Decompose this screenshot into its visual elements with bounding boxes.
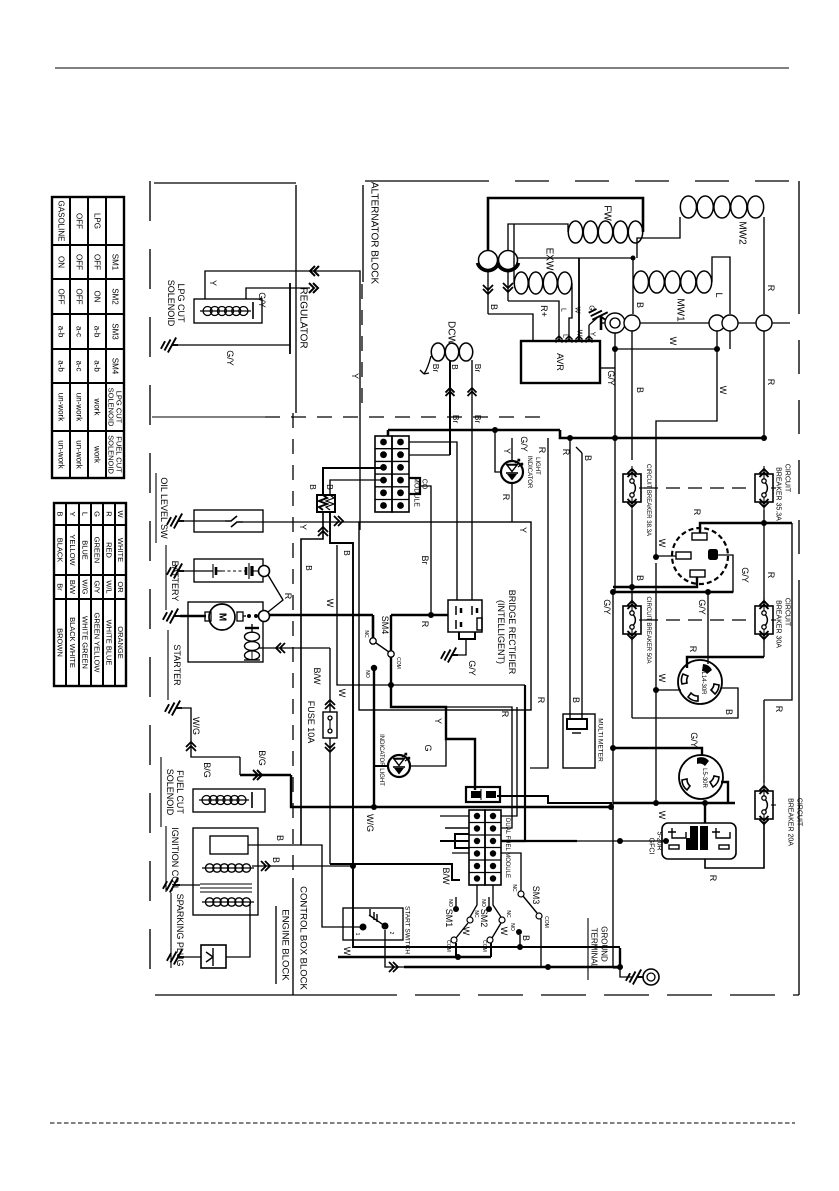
wire B to L14-30R: [632, 688, 738, 718]
diagram outer border left edge: [149, 181, 151, 995]
svg-text:un-work: un-work: [57, 440, 66, 469]
receptacle L14-30R outline: [678, 660, 722, 704]
wire right R vertical: [764, 523, 792, 700]
dual fuel module 2pin connector: [466, 787, 500, 802]
svg-text:B: B: [56, 511, 65, 516]
svg-text:NO: NO: [447, 899, 453, 907]
wire Y oil switch junction: [445, 827, 469, 829]
svg-text:W: W: [657, 811, 667, 820]
starter solenoid coil: [245, 632, 260, 641]
wire FW right end to brush 1 (thick top wire): [488, 198, 643, 250]
circuit breaker 38.3A: [623, 474, 641, 502]
thick W bus starter to SM4 NC: [269, 614, 373, 617]
svg-text:B: B: [271, 857, 281, 863]
svg-text:NO: NO: [509, 923, 515, 931]
B wire DCW to module pin2: [449, 430, 451, 455]
svg-text:BRIDGE RECTIFIER: BRIDGE RECTIFIER: [507, 590, 517, 675]
indicator light 1: [501, 461, 523, 483]
GFCI reset buttons: [690, 826, 698, 850]
ground terminal underline: [587, 918, 589, 980]
dual fuel module right wires: [501, 707, 517, 816]
dual fuel module pin3 thick wire to GFCI: [501, 840, 577, 842]
svg-text:un-work: un-work: [75, 393, 84, 422]
DCW winding coil: [431, 343, 444, 361]
wire breaker 20A to R net: [763, 700, 765, 783]
svg-text:M: M: [217, 613, 228, 621]
ignition coil core: [200, 883, 252, 885]
svg-text:W: W: [342, 947, 352, 956]
svg-text:R: R: [688, 646, 698, 653]
14-50R ground pin: [708, 549, 718, 560]
svg-text:LPG: LPG: [93, 213, 102, 229]
svg-text:CIRCUIT: CIRCUIT: [784, 598, 791, 627]
wire G/Y to light1: [495, 430, 501, 472]
starter box: [188, 602, 263, 662]
svg-text:B: B: [521, 935, 531, 941]
DCW lead B center thick: [449, 360, 451, 430]
wire L5-30R down to GFCI: [704, 803, 706, 823]
svg-text:SM3: SM3: [531, 886, 541, 905]
svg-text:WHITE GREEN: WHITE GREEN: [81, 616, 90, 669]
starter ground: [163, 609, 180, 624]
svg-text:SM3: SM3: [111, 323, 120, 340]
svg-text:W/G: W/G: [81, 580, 90, 595]
FW field winding coil: [568, 221, 582, 243]
battery label underline: [165, 545, 167, 610]
fuel cut solenoid coil: [199, 799, 249, 801]
svg-text:a-c: a-c: [75, 326, 84, 337]
svg-text:un-work: un-work: [57, 393, 66, 422]
wire B thin below suppressor to B bus: [330, 512, 353, 866]
wire B to 14-50R: [613, 577, 697, 587]
DCW lead Br right: [468, 388, 477, 396]
CO module pins: [380, 439, 387, 446]
B/W wire with chevron: [263, 647, 330, 649]
lpg cut solenoid box: [194, 299, 262, 323]
thick bus R G/Y horizontal: [388, 429, 560, 432]
svg-text:Y: Y: [518, 527, 528, 533]
svg-text:R: R: [283, 593, 293, 600]
starter terminal circle: [259, 611, 270, 622]
sparking plug ground: [167, 950, 184, 965]
L5-30R slot 1: [682, 779, 690, 790]
wire breaker 38.3A down to B junction: [631, 510, 633, 587]
svg-text:Br: Br: [431, 364, 441, 373]
svg-text:MW2: MW2: [737, 221, 748, 245]
wire R to 14-50R: [700, 523, 792, 533]
svg-text:B: B: [635, 575, 645, 581]
receptacle 14-50R outline: [672, 528, 728, 584]
breaker tie dashed 50-30: [644, 619, 752, 621]
battery ground: [167, 564, 184, 579]
svg-text:W: W: [337, 689, 347, 698]
svg-text:START SWITCH: START SWITCH: [404, 906, 411, 954]
fuse box: [323, 712, 337, 738]
svg-text:OFF: OFF: [57, 289, 66, 305]
SM4 COM down wire: [390, 657, 392, 685]
svg-text:W: W: [116, 510, 125, 518]
wire Y light1 top: [511, 438, 513, 461]
svg-text:STARTER: STARTER: [172, 644, 182, 686]
svg-text:Br: Br: [451, 415, 461, 424]
battery wire left: [184, 570, 213, 572]
dual fuel module pins: [474, 813, 480, 819]
svg-text:G/Y: G/Y: [225, 350, 235, 366]
wire B thin from CO module pin4: [330, 480, 382, 495]
starter coil wire to B/W: [251, 650, 253, 660]
svg-text:GASOLINE: GASOLINE: [57, 201, 66, 242]
svg-text:MODULE: MODULE: [413, 477, 420, 507]
svg-text:BLACK WHITE: BLACK WHITE: [68, 617, 77, 668]
regulator block top border: [295, 185, 297, 413]
circuit breaker 20A: [755, 791, 773, 819]
Y long wire from regulator: [296, 271, 360, 530]
fuel cut solenoid underline: [160, 757, 162, 827]
svg-text:W/G: W/G: [191, 717, 201, 735]
svg-text:1: 1: [354, 933, 360, 936]
wire G/Y to L14-30R ground: [707, 592, 709, 664]
colour legend table grid: [54, 503, 126, 686]
wire EXW right end to AVR L pin: [569, 283, 572, 341]
svg-text:Y: Y: [502, 448, 512, 454]
GFCI 5-20R outline: [662, 823, 736, 859]
GFCI outlet right: [712, 828, 730, 849]
noise suppressor box: [317, 495, 335, 512]
wire B terminal down to breaker 38.3A: [631, 331, 633, 460]
svg-text:B: B: [342, 550, 352, 556]
svg-text:R+: R+: [539, 305, 549, 317]
wire W bus 14-50R to L14-30R: [655, 563, 657, 803]
svg-text:SM1: SM1: [444, 909, 454, 928]
svg-text:NC: NC: [511, 884, 517, 892]
dual fuel module pin2 wire: [497, 796, 611, 807]
wire MW2 left end to MW1 left: [637, 217, 680, 258]
svg-text:L5-30R: L5-30R: [701, 768, 707, 788]
svg-text:Y: Y: [298, 524, 308, 530]
multimeter box: [563, 714, 595, 768]
svg-text:SM2: SM2: [111, 288, 120, 305]
svg-text:ON: ON: [93, 291, 102, 303]
L14-30R slot 1: [681, 674, 688, 684]
fuel cut solenoid box: [193, 789, 265, 812]
wire EXW left end up to FW line: [513, 224, 515, 283]
svg-text:B: B: [450, 364, 460, 370]
wire W to 14-50R: [656, 555, 676, 557]
Br wire to bridge: [420, 486, 431, 615]
svg-text:L: L: [560, 308, 567, 312]
svg-text:W: W: [325, 599, 335, 608]
svg-text:BREAKER 30A: BREAKER 30A: [775, 600, 782, 648]
circuit breaker 30A: [755, 606, 773, 634]
MW1 main winding coil: [633, 271, 648, 293]
svg-text:SPARKING PLUG: SPARKING PLUG: [175, 894, 185, 967]
diagram outer border top edge: [154, 182, 296, 184]
svg-text:W/G: W/G: [365, 814, 375, 832]
14-50R slot W: [676, 552, 691, 559]
AVR box: [521, 341, 600, 383]
svg-text:REGULATOR: REGULATOR: [298, 287, 309, 348]
wire G/Y down to ground terminal: [612, 592, 614, 968]
B wire to multimeter: [581, 453, 583, 719]
svg-text:W: W: [461, 927, 471, 936]
B/G chevron wire thick: [240, 774, 291, 776]
lpg ground wire G/Y to regulator: [178, 344, 290, 346]
svg-text:MW1: MW1: [675, 298, 686, 322]
svg-text:BREAKER 20A: BREAKER 20A: [787, 798, 794, 846]
oil level switch box: [194, 510, 263, 532]
B/W wire to dual fuel module: [330, 864, 460, 880]
condenser: [605, 313, 625, 333]
svg-text:FUSE 10A: FUSE 10A: [306, 701, 316, 744]
svg-text:CIRCUIT: CIRCUIT: [796, 798, 803, 827]
brush 1: [479, 251, 498, 270]
SM3 NO wire to B: [519, 935, 521, 947]
alternator output terminal line: [624, 322, 790, 324]
thick G/Y bus horizontal: [613, 591, 733, 593]
svg-text:R: R: [766, 379, 776, 386]
dual fuel module bottom wires to SM: [470, 885, 477, 917]
svg-text:BLUE: BLUE: [81, 540, 90, 560]
oil level switch contact: [225, 516, 243, 527]
alternator block divider: [361, 284, 363, 413]
wire breaker 35.3A to R node 14-50R: [763, 510, 765, 523]
svg-text:Y: Y: [589, 332, 596, 337]
starter label underline: [167, 630, 169, 700]
terminal circle L: [722, 315, 738, 331]
svg-text:Y: Y: [350, 373, 360, 379]
diagram outer border right edge: [798, 181, 800, 280]
svg-text:R: R: [774, 706, 784, 713]
terminal circle B: [624, 315, 640, 331]
CO module right pin1 wire: [409, 442, 457, 600]
W bus bottom: [404, 966, 620, 968]
Y arrow into control box: [334, 516, 343, 526]
svg-text:NC: NC: [505, 910, 511, 918]
L5-30R ground slot: [697, 757, 709, 766]
wire brush2 to AVR R+ pin: [508, 301, 559, 341]
sparking plug electrode: [206, 948, 213, 966]
wire brush1 B to AVR: [488, 314, 533, 341]
svg-text:Br: Br: [56, 583, 65, 591]
svg-text:G/Y: G/Y: [602, 599, 612, 615]
wire G/Y to GFCI junction: [663, 838, 669, 844]
svg-text:R: R: [766, 285, 776, 292]
wire brush2 node to MW1 left: [518, 257, 633, 259]
svg-text:SOLENOID: SOLENOID: [166, 280, 176, 327]
wire MW1 right end L to terminal: [712, 257, 730, 314]
page header rule: [55, 67, 789, 69]
noise suppressor zigzag left: [319, 495, 327, 510]
svg-text:L: L: [81, 512, 90, 516]
control box / engine block divider: [292, 413, 294, 875]
svg-text:MULTI METER: MULTI METER: [597, 718, 604, 762]
wire FW left end to brush 2: [508, 224, 568, 250]
wire brush2 down arrow R+: [507, 272, 509, 301]
svg-text:B/W: B/W: [68, 580, 77, 595]
terminal circle W: [709, 315, 725, 331]
sparking plug underline: [170, 893, 172, 968]
ignition coil ground: [163, 878, 180, 893]
wire brush1 down arrow B: [487, 272, 489, 314]
svg-text:B: B: [304, 565, 314, 571]
svg-text:OIL LEVEL SW: OIL LEVEL SW: [159, 477, 169, 539]
svg-text:work: work: [93, 398, 102, 417]
diagram outer border bottom edge: [155, 994, 352, 996]
svg-text:COM: COM: [543, 916, 549, 928]
starter motor circle: [209, 604, 235, 630]
svg-text:EXW: EXW: [544, 248, 555, 271]
svg-text:L: L: [714, 292, 724, 297]
svg-text:B: B: [583, 455, 593, 461]
wire B thick below suppressor down to ignition: [301, 512, 323, 845]
svg-text:W: W: [576, 330, 583, 337]
svg-text:work: work: [93, 445, 102, 464]
circuit breaker 50A: [623, 606, 641, 634]
svg-text:G/Y: G/Y: [689, 732, 699, 748]
wire ground to B/G: [182, 708, 240, 757]
circuit breaker 35.3A: [755, 474, 773, 502]
wire AVR G/Y output: [601, 367, 615, 369]
start switch lever: [369, 909, 385, 926]
wire W to L14-30R: [656, 689, 681, 691]
svg-text:FW: FW: [602, 205, 613, 221]
svg-text:B: B: [635, 302, 645, 308]
wire R terminal down to R bus: [763, 331, 765, 438]
svg-text:L: L: [562, 334, 569, 338]
oil level switch ground: [167, 514, 184, 529]
thin wire R to module: [446, 707, 512, 828]
start switch wire 2 down: [385, 930, 404, 967]
svg-text:a-b: a-b: [57, 326, 66, 338]
svg-text:CONTROL BOX BLOCK: CONTROL BOX BLOCK: [298, 886, 309, 990]
CO module connector shell: [375, 436, 392, 512]
svg-text:a-b: a-b: [93, 360, 102, 372]
svg-text:FUEL CUT: FUEL CUT: [175, 770, 185, 814]
svg-text:R: R: [501, 494, 511, 501]
svg-text:B/W: B/W: [312, 668, 322, 686]
regulator block divider: [152, 416, 265, 418]
oil level switch wire left: [184, 520, 225, 522]
wire R from light1: [511, 483, 513, 522]
indicator light 2: [388, 755, 410, 777]
fuel cut solenoid bar: [251, 792, 253, 808]
svg-text:G/Y: G/Y: [467, 660, 477, 676]
svg-text:CIRCUIT BREAKER 50A: CIRCUIT BREAKER 50A: [645, 597, 651, 664]
W bus mid bottom: [338, 956, 491, 958]
svg-text:W: W: [718, 386, 728, 395]
svg-text:B: B: [635, 387, 645, 393]
svg-text:SOLENOID: SOLENOID: [107, 435, 116, 474]
svg-text:B/W: B/W: [441, 868, 451, 886]
svg-text:L14-30R: L14-30R: [700, 671, 706, 695]
dual fuel module notch left: [455, 834, 469, 848]
wire W terminal down: [716, 331, 718, 349]
svg-text:B: B: [308, 484, 318, 490]
bridge rectifier G/Y ground: [452, 639, 466, 655]
EXW exciter winding coil: [514, 272, 528, 294]
svg-text:R: R: [708, 875, 718, 882]
ignition coil primary: [202, 867, 254, 869]
svg-text:R: R: [692, 509, 702, 516]
svg-text:Y: Y: [433, 718, 443, 724]
ignition coil B wire 1: [248, 844, 301, 846]
svg-text:G/Y: G/Y: [93, 581, 102, 594]
wire breaker30A to R wire: [763, 634, 765, 657]
svg-text:LIGHT: LIGHT: [534, 457, 540, 475]
svg-text:ALTERNATOR BLOCK: ALTERNATOR BLOCK: [369, 182, 380, 285]
CO module notch: [409, 478, 420, 494]
start switch contact 1: [360, 924, 367, 931]
svg-text:Br: Br: [420, 556, 430, 565]
wire NO to light: [374, 765, 388, 767]
svg-text:COM: COM: [395, 657, 401, 669]
svg-text:CIRCUIT: CIRCUIT: [784, 464, 791, 493]
starter solenoid bar: [251, 624, 253, 632]
wire ignition secondary to spark plug: [226, 902, 250, 957]
terminal circle R: [756, 315, 772, 331]
svg-text:B: B: [724, 709, 734, 715]
MW2 main winding coil: [680, 196, 696, 218]
starter thick wire to motor: [180, 615, 206, 618]
svg-text:BLACK: BLACK: [56, 538, 65, 563]
fuse wire down: [329, 738, 331, 864]
svg-text:NO: NO: [480, 899, 486, 907]
SM4 NO wire to indicator light: [373, 671, 375, 807]
ignition coil B wire 2 with chevron: [252, 865, 353, 867]
svg-text:W: W: [657, 539, 667, 548]
wire G/Y to L5-30R: [613, 748, 702, 756]
thick W wire to module notch: [501, 685, 525, 841]
control box block label underline: [292, 878, 294, 995]
brush 2: [499, 251, 518, 270]
svg-text:B: B: [489, 304, 499, 310]
svg-text:a-b: a-b: [93, 326, 102, 338]
svg-text:W: W: [574, 307, 581, 314]
svg-text:ORANGE: ORANGE: [116, 626, 125, 659]
svg-text:SM4: SM4: [111, 358, 120, 375]
engine block label underline: [275, 906, 277, 984]
B/W wire fuse vertical: [329, 648, 331, 712]
svg-text:OFF: OFF: [75, 213, 84, 229]
thick W bus to L5-30R: [613, 802, 735, 804]
multimeter wire G/Y: [569, 438, 571, 719]
svg-text:G/Y: G/Y: [740, 567, 750, 583]
battery box: [194, 559, 263, 582]
bridge rectifier unit box: [448, 600, 482, 632]
page footer dashed rule: [50, 1122, 795, 1124]
wire W from SM4 junction: [337, 545, 525, 685]
ground glyph bottom W bus: [619, 948, 621, 967]
svg-text:INDICATOR LIGHT: INDICATOR LIGHT: [378, 734, 384, 786]
14-50R slot R: [692, 533, 707, 540]
wire MW1 left end junction to terminal B: [632, 258, 634, 314]
sparking plug box: [201, 945, 226, 968]
svg-text:CO: CO: [421, 479, 428, 490]
wire G/Y from 14-50R ground pin: [708, 555, 733, 592]
svg-text:ON: ON: [57, 256, 66, 268]
bridge rectifier outer box: [359, 522, 531, 710]
lpg cut solenoid coil: [200, 310, 251, 312]
svg-text:BREAKER 35.3A: BREAKER 35.3A: [775, 467, 782, 521]
wire W terminal down to W bus: [656, 349, 717, 557]
alternator block label underline: [362, 185, 364, 282]
battery R wire diagonal: [268, 575, 283, 612]
battery terminal circle: [259, 566, 270, 577]
svg-text:GREEN YELLOW: GREEN YELLOW: [93, 613, 102, 674]
svg-text:B: B: [571, 697, 581, 703]
lpg cut solenoid bar: [252, 302, 254, 319]
dual fuel module left wires: [440, 815, 469, 817]
